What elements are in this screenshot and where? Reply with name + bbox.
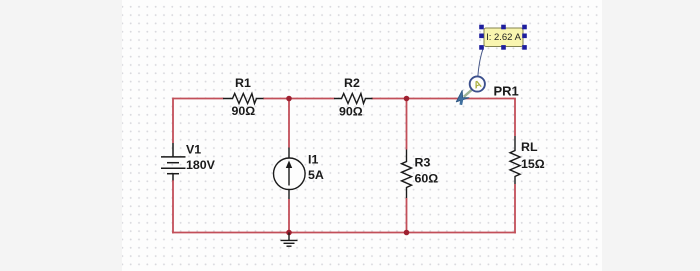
node junction: I1/ground bottom bbox=[286, 230, 292, 236]
selection handle middle-left bbox=[479, 34, 484, 39]
svg-text:5A: 5A bbox=[308, 168, 324, 182]
wire top rail: R2 to top-right corner bbox=[372, 98, 516, 100]
probe PR1 leader line bbox=[478, 47, 484, 77]
resistor R1 bbox=[223, 94, 264, 104]
wire R3 branch upper bbox=[406, 99, 408, 150]
current source I1 bbox=[274, 148, 306, 200]
resistor RL bbox=[510, 136, 520, 184]
svg-text:RL: RL bbox=[521, 140, 538, 154]
node junction: R2/R3 top bbox=[404, 96, 410, 102]
wire I1 branch lower bbox=[288, 199, 290, 233]
svg-text:90Ω: 90Ω bbox=[339, 105, 363, 119]
selection handle top-middle bbox=[501, 25, 506, 30]
selection handle bottom-left bbox=[479, 45, 484, 50]
svg-text:R3: R3 bbox=[415, 156, 431, 170]
wire right rail lower: RL to bottom rail bbox=[514, 184, 516, 233]
svg-text:PR1: PR1 bbox=[494, 84, 519, 99]
selection handle bottom-middle bbox=[501, 45, 506, 50]
probe PR1 ammeter circle bbox=[470, 76, 485, 91]
svg-text:60Ω: 60Ω bbox=[415, 171, 439, 185]
selection handle middle-right bbox=[522, 34, 527, 39]
probe PR1 readout box bbox=[484, 28, 523, 47]
probe PR1 arrowhead bbox=[456, 90, 469, 101]
node junction: R1/R2/I1 top bbox=[286, 96, 292, 102]
wire left rail upper: corner to V1 bbox=[172, 98, 174, 143]
wire right rail upper: corner to RL bbox=[514, 99, 516, 137]
node junction: R3 bottom bbox=[404, 230, 410, 236]
selection handle top-right bbox=[522, 25, 527, 30]
svg-text:R2: R2 bbox=[344, 76, 360, 90]
probe PR1 arrow shaft bbox=[464, 89, 473, 97]
battery V1 bbox=[161, 143, 186, 180]
resistor R2 bbox=[334, 94, 373, 104]
wire left rail lower: V1 to bottom rail bbox=[172, 180, 174, 233]
svg-text:I: 2.62 A: I: 2.62 A bbox=[486, 32, 522, 43]
wire top rail: V1 to R1 bbox=[173, 98, 224, 100]
svg-text:V1: V1 bbox=[186, 143, 201, 157]
selection handle bottom-right bbox=[522, 45, 527, 50]
svg-text:180V: 180V bbox=[186, 158, 216, 172]
svg-text:I1: I1 bbox=[308, 153, 318, 167]
resistor R3 bbox=[402, 150, 412, 199]
wire top rail: R1 to R2 bbox=[263, 98, 335, 100]
wire bottom rail bbox=[172, 232, 516, 234]
wire I1 branch upper bbox=[288, 99, 290, 148]
selection handle top-left bbox=[479, 25, 484, 30]
svg-text:15Ω: 15Ω bbox=[521, 157, 545, 171]
svg-text:90Ω: 90Ω bbox=[232, 104, 256, 118]
wire R3 branch lower bbox=[406, 198, 408, 233]
ground bbox=[281, 233, 298, 247]
svg-text:R1: R1 bbox=[235, 76, 251, 90]
